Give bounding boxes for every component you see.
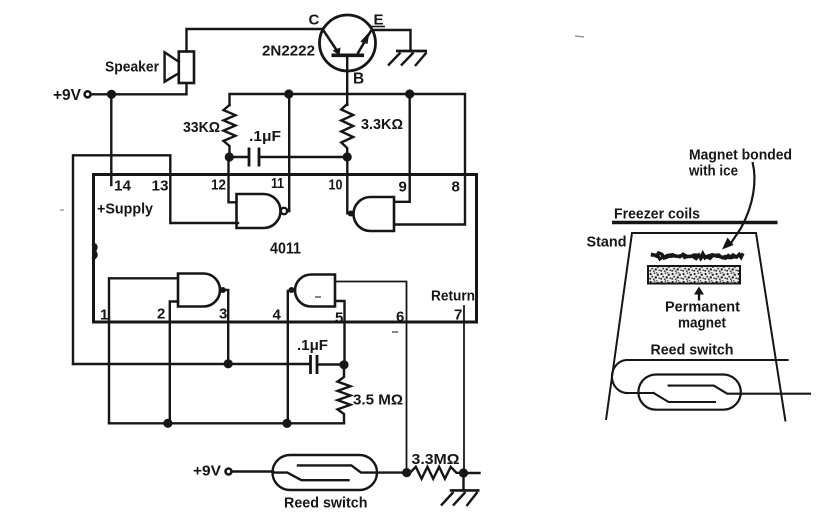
svg-text:11: 11 bbox=[271, 175, 284, 192]
gate U1C (pins 1,2 in / 3 out) bbox=[178, 274, 220, 307]
resistor R2 3.3KΩ bbox=[341, 104, 353, 157]
ice layer scribble bbox=[651, 253, 743, 259]
svg-text:1: 1 bbox=[100, 307, 108, 324]
wire cap2 right to junction bbox=[317, 363, 344, 365]
resistor R1 33KΩ bbox=[224, 105, 236, 157]
svg-text:12: 12 bbox=[211, 177, 226, 194]
svg-text:4: 4 bbox=[273, 307, 282, 324]
svg-text:14: 14 bbox=[114, 178, 132, 195]
svg-text:Stand: Stand bbox=[587, 233, 627, 250]
svg-text:+9V: +9V bbox=[193, 463, 221, 480]
svg-text:Reed switch: Reed switch bbox=[284, 494, 368, 511]
node junction dot pin4 bbox=[282, 419, 291, 428]
reed S2 upper blade and right lead bbox=[669, 386, 810, 394]
svg-text:.1μF: .1μF bbox=[249, 128, 281, 145]
wire pin 10 drop to gate B output bbox=[346, 157, 348, 213]
svg-text:Freezer coils: Freezer coils bbox=[614, 206, 700, 223]
svg-text:.1μF: .1μF bbox=[297, 337, 328, 354]
svg-text:2: 2 bbox=[157, 306, 165, 323]
node junction dot +9V/pin14 bbox=[107, 90, 116, 99]
node +9V terminal bottom bbox=[226, 469, 232, 475]
node junction dot rail/pin11 bbox=[284, 89, 293, 98]
wire pin 11 riser gate A output bbox=[288, 94, 290, 211]
wire gate C upper input / pin 1 bbox=[109, 278, 178, 423]
svg-text:Reed switch: Reed switch bbox=[651, 341, 734, 358]
svg-text:B: B bbox=[353, 71, 364, 88]
wire base lead down from transistor bbox=[346, 55, 348, 105]
svg-text:C: C bbox=[309, 11, 320, 28]
node junction dot reed/pin6 bbox=[402, 468, 411, 477]
wire gate D lower input / pin 5 bbox=[335, 301, 345, 365]
wire pin 9 drop to gate B input bbox=[394, 94, 410, 202]
ground bottom bbox=[441, 473, 480, 506]
node gate B output bubble bbox=[348, 211, 354, 217]
permanent magnet block bbox=[648, 266, 740, 284]
node junction dot pin2 bbox=[163, 419, 172, 428]
resistor R3 3.5MΩ bbox=[338, 365, 351, 424]
svg-text:13: 13 bbox=[152, 178, 169, 195]
capacitor C2 .1uF bbox=[311, 355, 318, 374]
wire +9V rail to speaker bottom bbox=[91, 83, 187, 94]
svg-text:9: 9 bbox=[399, 179, 407, 196]
svg-text:+Supply: +Supply bbox=[97, 201, 154, 218]
svg-text:5: 5 bbox=[335, 310, 343, 327]
wire 33K junction to cap bbox=[230, 156, 250, 158]
wire gate C out net: y364 to cap bbox=[73, 363, 310, 365]
svg-text:10: 10 bbox=[329, 177, 343, 194]
wire gate C output to pin 3 drop bbox=[226, 290, 229, 364]
freezer coils line bbox=[612, 221, 778, 224]
resistor R4 3.3MΩ bbox=[407, 467, 464, 479]
arrow magnet pointer bbox=[722, 162, 754, 250]
node junction dot rail/pin9 bbox=[405, 89, 414, 98]
label E underline bbox=[371, 26, 385, 28]
reed switch S2 capsule bbox=[638, 375, 740, 410]
svg-text:3.5 MΩ: 3.5 MΩ bbox=[353, 392, 403, 409]
wire stub right of junction bbox=[464, 472, 480, 474]
wire gate C lower input / pin 2 bbox=[170, 302, 178, 424]
svg-text:7: 7 bbox=[454, 307, 462, 324]
wire bottom net pins 1,2,4 to 3.5M bbox=[109, 422, 344, 424]
wire gate D upper input / pin 6 drop bbox=[335, 282, 407, 473]
wire gate D output pin 4 drop bbox=[287, 291, 289, 423]
stand trapezoid bbox=[606, 233, 786, 422]
svg-text:4011: 4011 bbox=[270, 241, 301, 258]
svg-text:with ice: with ice bbox=[688, 163, 738, 180]
wire pin 13 net: left rail to gate A lower input bbox=[73, 155, 238, 364]
svg-text:Permanent: Permanent bbox=[665, 299, 740, 316]
wire pin 7 drop bbox=[463, 306, 465, 473]
reed S2 lower blade bbox=[654, 393, 715, 402]
node junction dot 3.3M/pin7/gnd bbox=[459, 468, 468, 477]
gate U1B mirrored (pins 8,9 in / 10 out) bbox=[354, 197, 395, 231]
wire reed upper lead bbox=[612, 360, 788, 393]
wire pin 14 supply drop bbox=[110, 94, 112, 185]
svg-text:33KΩ: 33KΩ bbox=[183, 119, 220, 136]
node junction dot cap2/pin5/3.5M bbox=[339, 360, 348, 369]
gate U1A (pins 12,13 in / 11 out) bbox=[237, 194, 376, 228]
wire output rail 33K-top to pin8 bbox=[230, 94, 466, 225]
svg-text:6: 6 bbox=[396, 309, 404, 326]
node +9V terminal top-left bbox=[85, 91, 91, 97]
svg-text:Return: Return bbox=[431, 288, 475, 305]
transistor Q1 2N2222 bbox=[320, 15, 376, 71]
capacitor C1 .1uF bbox=[249, 148, 259, 167]
wire pin 12 drop to gate A input bbox=[229, 157, 238, 202]
wire +9V to reed switch bbox=[232, 470, 274, 472]
svg-text:magnet: magnet bbox=[678, 314, 726, 331]
arrow magnet up-pointer bbox=[694, 287, 704, 301]
gate U1D mirrored (pins 5,6 in / 4 out) bbox=[295, 275, 335, 307]
svg-text:+9V: +9V bbox=[53, 87, 81, 104]
wire emitter to ground bbox=[372, 30, 411, 51]
svg-text:2N2222: 2N2222 bbox=[262, 43, 315, 60]
svg-text:3.3KΩ: 3.3KΩ bbox=[361, 116, 403, 133]
node junction dot pin3/wire bbox=[224, 359, 233, 368]
svg-text:Speaker: Speaker bbox=[105, 58, 159, 75]
wire gate A output to pin11 bbox=[287, 210, 289, 212]
node gate D output bubble bbox=[289, 287, 295, 293]
wire speaker top to collector bbox=[187, 29, 323, 52]
node junction dot 3.3K/cap/pin10 bbox=[343, 152, 352, 161]
svg-text:Magnet bonded: Magnet bonded bbox=[689, 146, 792, 163]
speck marks bbox=[392, 331, 398, 333]
IC U1 4011 outline bbox=[94, 175, 477, 323]
wire cap to 3.3K junction bbox=[259, 156, 347, 158]
node gate C output bubble bbox=[220, 287, 226, 293]
ground top-right bbox=[388, 51, 427, 66]
reed switch S1 bbox=[273, 455, 407, 490]
svg-text:3.3MΩ: 3.3MΩ bbox=[412, 451, 460, 468]
svg-text:8: 8 bbox=[452, 179, 460, 196]
node junction dot 33K/cap/pin12 bbox=[225, 152, 234, 161]
speaker LS1 bbox=[165, 52, 194, 84]
svg-text:3: 3 bbox=[219, 306, 227, 323]
